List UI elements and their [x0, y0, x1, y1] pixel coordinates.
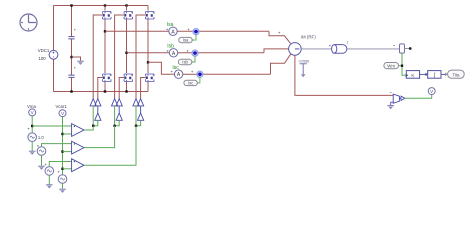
wire: Vmc source to ground — [48, 175, 50, 184]
wire: Vma source to ground — [31, 142, 33, 151]
wire: gate Q4 — [98, 78, 103, 99]
node: bus bottom leg1 — [104, 90, 106, 92]
wire: DC bus bottom — [54, 91, 149, 93]
svg-text:Isc: Isc — [172, 65, 179, 71]
wire: gate Q6 — [141, 78, 146, 99]
comparator CMP2 — [72, 141, 84, 154]
probe Vma — [29, 109, 36, 116]
svg-text:Isb: Isb — [167, 44, 174, 50]
wire: G3b to N3 — [140, 106, 142, 113]
polarity mark — [171, 71, 173, 73]
wire: DC bus top — [54, 5, 149, 7]
wire: Wm probe stub — [399, 65, 401, 67]
node: leg3 drive — [135, 125, 137, 127]
svg-text:IM (RF): IM (RF) — [301, 34, 316, 39]
cap label mark — [74, 29, 75, 30]
source Vmb — [37, 147, 46, 156]
node: phase C tap — [147, 61, 149, 63]
node: phase A tap — [104, 30, 106, 32]
ground: carrier — [59, 189, 66, 193]
wire: midpoint to ground — [72, 57, 81, 61]
wire: leg1 to bottom bus — [104, 82, 106, 92]
speed sensor W1 — [400, 44, 405, 53]
wire: Isb probe hook — [192, 55, 195, 62]
polarity mark — [45, 164, 47, 166]
transistor Q6 — [146, 74, 155, 82]
wire: N3 input jog — [136, 120, 141, 126]
wire: motor shaft — [301, 48, 332, 50]
source Vma — [28, 133, 37, 142]
wire: comparator 1 output — [84, 126, 93, 130]
wire: Vmc to comparator 3 — [49, 162, 71, 167]
wire: phase B to ammeter — [127, 52, 170, 54]
capacitor C1 — [68, 37, 74, 39]
wire: left rail lower — [53, 59, 55, 91]
wire: phase A to ammeter — [105, 30, 169, 32]
wire: integrator to probe — [441, 73, 446, 75]
node: Vma — [31, 125, 33, 127]
svg-text:Wm: Wm — [387, 63, 395, 68]
capacitor C2 — [68, 75, 74, 77]
wire: G1a down — [92, 106, 94, 126]
source VDC1 — [49, 50, 58, 59]
svg-text:Isa: Isa — [183, 38, 189, 43]
ammeter Isb — [169, 49, 177, 57]
ground: Vmb — [38, 166, 45, 170]
source Vmc — [45, 167, 54, 176]
svg-text:VDC1: VDC1 — [38, 48, 50, 53]
wire: carrier distribution — [62, 117, 64, 175]
svg-text:∫: ∫ — [432, 72, 435, 79]
probe label Tita — [445, 70, 464, 78]
transistor Q1 — [103, 12, 112, 20]
integrator block — [425, 71, 441, 80]
wire: leg3 to bottom bus — [147, 82, 149, 92]
inverter N1 — [95, 113, 101, 120]
probe label Isc — [184, 80, 197, 85]
wire: carrier to comparator 3 — [63, 168, 72, 170]
torque arrow — [300, 64, 307, 77]
wire: G1b to N1 — [97, 106, 99, 113]
wire: Vmb source to ground — [41, 155, 43, 166]
wire: gate Q2 — [115, 15, 125, 99]
wire: leg2 drain — [126, 6, 128, 11]
wire: leg1 phase vertical — [104, 20, 106, 74]
polarity mark — [187, 50, 189, 52]
node: leg1 drive — [92, 125, 94, 127]
wire: comparator 3 output — [84, 126, 136, 165]
polarity mark — [390, 92, 392, 94]
inverter N3 — [138, 113, 144, 120]
node: bus bottom leg2 — [125, 90, 127, 92]
ground: op-amp — [387, 106, 394, 110]
wire: G3a down — [135, 106, 137, 126]
wire: Vmb to comparator 2 — [42, 144, 72, 147]
wire: phase C to motor — [271, 54, 291, 74]
polarity mark — [166, 29, 168, 31]
svg-text:Isa: Isa — [167, 22, 174, 28]
probe Vcar1 — [59, 110, 66, 117]
gate driver G1b — [95, 99, 101, 106]
wire: leg2 phase vertical — [126, 20, 128, 74]
svg-text:1.0: 1.0 — [38, 135, 44, 140]
node: cap midpoint — [70, 56, 72, 58]
wire: gate Q5 — [119, 78, 124, 99]
svg-text:100: 100 — [39, 56, 47, 61]
wire: G2a down — [114, 106, 116, 126]
wire: gate Q1 — [93, 15, 102, 99]
svg-text:T: T — [346, 41, 349, 45]
probe Vn — [428, 88, 435, 95]
svg-text:Vma: Vma — [27, 104, 36, 109]
wire: leg1 drain — [104, 6, 106, 11]
transistor Q3 — [146, 12, 155, 20]
wire: comparator 2 output — [84, 126, 115, 148]
clock icon — [20, 14, 37, 31]
op-amp U1 — [393, 94, 405, 103]
probe label Isb — [178, 59, 191, 64]
svg-text:Vcar1: Vcar1 — [56, 104, 68, 109]
node: cap top — [70, 4, 72, 6]
gate driver G3b — [138, 99, 144, 106]
ammeter Isa — [169, 27, 177, 35]
transistor Q2 — [124, 12, 133, 20]
ground: Vmc — [46, 185, 53, 189]
probe label Isa — [179, 37, 192, 42]
polarity mark — [167, 50, 169, 52]
node: shaft end — [409, 47, 412, 50]
wire: N2 input jog — [115, 120, 120, 126]
gate driver G3a — [133, 99, 139, 106]
wire: carrier to comparator 1 — [63, 133, 72, 135]
node: leg2 drive — [113, 125, 115, 127]
wire: ammeter Isc to node — [183, 73, 271, 75]
transistor Q5 — [124, 74, 133, 82]
node: carrier comp3 — [61, 168, 63, 170]
wire: leg3 drain — [147, 6, 149, 11]
wire: op-amp output — [405, 95, 432, 99]
polarity mark — [191, 71, 193, 73]
wire: Vma to comparator 1 — [32, 125, 71, 127]
source Vcar triangle — [58, 175, 67, 184]
polarity mark — [393, 44, 395, 46]
node A sense — [193, 29, 199, 35]
ground: Vma — [29, 151, 36, 155]
polarity mark — [188, 29, 190, 31]
wire: phase C jog to ammeter — [148, 62, 174, 74]
polarity mark — [28, 128, 30, 130]
mechanical load J1 — [332, 45, 347, 54]
wire: Isa probe hook — [192, 34, 196, 40]
node: cap bottom — [70, 90, 72, 92]
polarity mark — [278, 32, 280, 34]
wire: op-amp minus to ground — [391, 102, 394, 105]
wire: Isc probe hook — [197, 76, 200, 83]
ammeter Isc — [174, 70, 182, 78]
wire: leg3 phase vertical — [147, 20, 149, 74]
probe label Wm — [384, 63, 399, 69]
svg-text:Isb: Isb — [182, 60, 188, 65]
node: carrier comp2 — [61, 150, 63, 152]
wire: sensor stub out — [405, 48, 410, 50]
gate driver G2a — [112, 99, 118, 106]
gate driver G2b — [116, 99, 122, 106]
node C sense — [197, 71, 203, 77]
polarity mark — [37, 145, 39, 147]
wire: carrier to comparator 2 — [63, 151, 72, 153]
wire: gate Q3 — [136, 15, 146, 99]
wire: motor neutral down — [295, 55, 393, 95]
wire: sensor output down — [402, 53, 406, 75]
motor IM — [289, 43, 302, 56]
transistor Q4 — [103, 74, 112, 82]
comparator CMP1 — [72, 124, 84, 137]
node: carrier comp1 — [61, 133, 63, 135]
wire: ammeter Isb to node — [178, 52, 264, 54]
wire: G2b to N2 — [118, 106, 120, 113]
node: bus top leg2 — [125, 4, 127, 6]
gain block K — [406, 71, 420, 79]
wire: Vma probe to source — [31, 116, 33, 133]
wire: phase B to motor — [264, 49, 289, 53]
wire: left rail upper — [53, 6, 55, 51]
svg-text:0.0588: 0.0588 — [299, 60, 309, 64]
polarity mark — [329, 45, 331, 47]
comparator CMP3 — [72, 159, 84, 172]
wire: leg2 to bottom bus — [126, 82, 128, 92]
gate driver G1a — [90, 99, 96, 106]
wire: capacitor branch — [71, 6, 73, 92]
node: Wm — [401, 65, 403, 67]
wire: carrier source to ground — [62, 183, 64, 189]
inverter N2 — [116, 113, 122, 120]
wire: N1 input jog — [93, 120, 98, 126]
svg-text:Tita: Tita — [452, 72, 460, 77]
node: bus top leg1 — [104, 4, 106, 6]
polarity mark — [58, 171, 60, 173]
ground: DC midpoint — [77, 61, 84, 65]
node B sense — [192, 50, 198, 56]
node: phase B tap — [125, 52, 127, 54]
svg-text:Isc: Isc — [188, 80, 193, 85]
wire: K to integrator — [420, 73, 427, 75]
wire: ammeter Isa to node — [177, 30, 269, 32]
wire: phase A to motor — [269, 31, 291, 43]
wire: load to speed sensor — [347, 48, 400, 50]
